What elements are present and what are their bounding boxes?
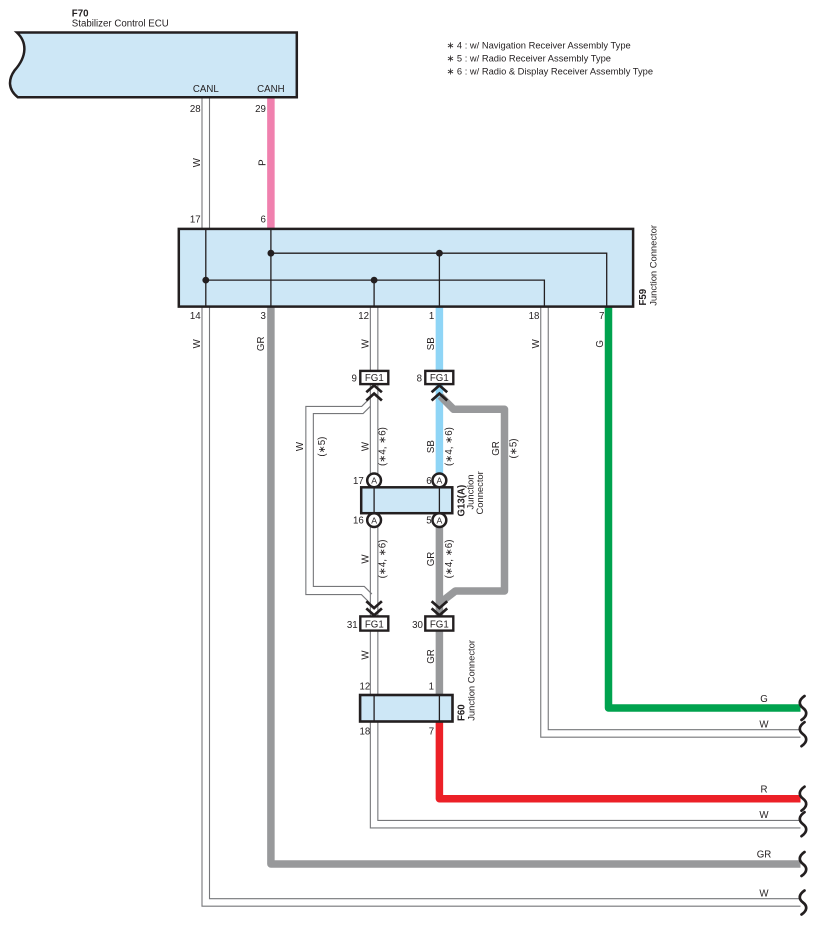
svg-text:∗ 5 : w/ Radio Receiver Assemb: ∗ 5 : w/ Radio Receiver Assembly Type [447, 54, 612, 64]
svg-text:W: W [759, 719, 769, 730]
svg-text:1: 1 [429, 311, 434, 322]
svg-text:W: W [531, 338, 542, 348]
svg-text:A: A [371, 515, 377, 525]
svg-text:18: 18 [360, 727, 371, 738]
svg-text:6: 6 [426, 476, 431, 487]
svg-text:GR: GR [491, 441, 502, 456]
svg-text:12: 12 [360, 681, 371, 692]
svg-text:17: 17 [353, 476, 364, 487]
svg-text:W: W [759, 810, 769, 821]
svg-text:(∗4, ∗6): (∗4, ∗6) [444, 540, 455, 579]
svg-text:CANH: CANH [257, 84, 284, 95]
svg-text:29: 29 [255, 104, 266, 115]
svg-text:9: 9 [352, 374, 357, 385]
svg-text:30: 30 [412, 620, 423, 631]
svg-text:17: 17 [190, 215, 201, 226]
svg-text:W: W [759, 888, 769, 899]
svg-text:GR: GR [426, 552, 437, 567]
svg-text:Connector: Connector [474, 471, 485, 514]
svg-text:7: 7 [429, 727, 434, 738]
svg-text:FG1: FG1 [430, 373, 449, 384]
svg-text:12: 12 [358, 311, 369, 322]
svg-text:1: 1 [429, 681, 434, 692]
svg-text:8: 8 [417, 374, 422, 385]
svg-text:7: 7 [599, 311, 604, 322]
svg-text:14: 14 [190, 311, 201, 322]
svg-text:5: 5 [426, 516, 431, 527]
svg-text:CANL: CANL [193, 84, 219, 95]
svg-text:A: A [437, 476, 443, 486]
svg-text:FG1: FG1 [430, 619, 449, 630]
svg-text:Junction Connector: Junction Connector [466, 640, 477, 721]
svg-text:Stabilizer Control ECU: Stabilizer Control ECU [72, 19, 169, 30]
svg-text:GR: GR [256, 337, 267, 352]
svg-text:16: 16 [353, 516, 364, 527]
svg-text:W: W [361, 650, 372, 660]
svg-text:P: P [257, 159, 268, 165]
svg-text:W: W [361, 338, 372, 348]
svg-text:W: W [295, 441, 306, 451]
svg-text:G: G [595, 340, 606, 348]
svg-text:GR: GR [757, 850, 772, 861]
svg-text:A: A [371, 476, 377, 486]
svg-text:SB: SB [426, 440, 437, 453]
svg-text:(∗5): (∗5) [509, 439, 520, 459]
svg-text:W: W [192, 157, 203, 167]
svg-text:18: 18 [529, 311, 540, 322]
svg-text:31: 31 [347, 620, 358, 631]
svg-text:W: W [361, 441, 372, 451]
svg-text:3: 3 [261, 311, 266, 322]
svg-text:28: 28 [190, 104, 201, 115]
svg-text:∗ 4 : w/ Navigation Receiver A: ∗ 4 : w/ Navigation Receiver Assembly Ty… [447, 41, 631, 51]
svg-text:(∗5): (∗5) [317, 437, 328, 457]
svg-text:SB: SB [426, 337, 437, 350]
svg-text:(∗4, ∗6): (∗4, ∗6) [377, 540, 388, 579]
svg-text:GR: GR [426, 649, 437, 664]
svg-text:G: G [760, 694, 768, 705]
svg-text:∗ 6 : w/ Radio & Display Recei: ∗ 6 : w/ Radio & Display Receiver Assemb… [447, 67, 654, 77]
svg-text:6: 6 [261, 215, 266, 226]
svg-text:W: W [361, 554, 372, 564]
svg-text:W: W [192, 338, 203, 348]
svg-text:A: A [437, 515, 443, 525]
svg-text:(∗4, ∗6): (∗4, ∗6) [377, 427, 388, 466]
svg-text:FG1: FG1 [365, 373, 384, 384]
svg-text:R: R [761, 785, 768, 796]
svg-text:FG1: FG1 [365, 619, 384, 630]
svg-text:(∗4, ∗6): (∗4, ∗6) [444, 427, 455, 466]
svg-text:Junction Connector: Junction Connector [648, 225, 659, 306]
